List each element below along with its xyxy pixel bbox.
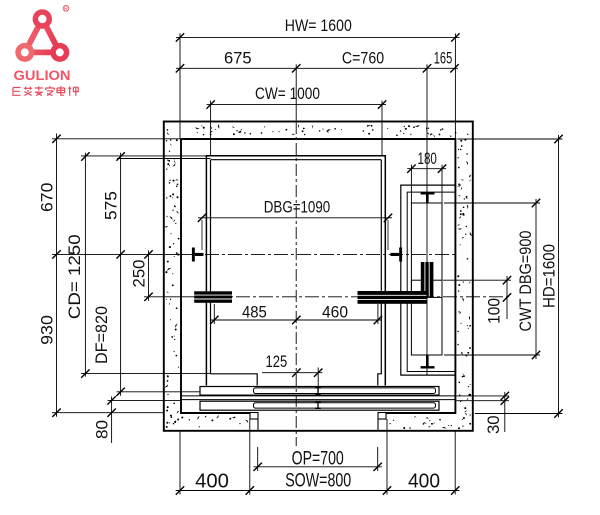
svg-text:CD= 1250: CD= 1250 — [66, 234, 84, 319]
car cab outer wall — [206, 156, 385, 386]
svg-text:R: R — [64, 6, 68, 12]
car rail bracket right (filled) — [358, 291, 427, 304]
car cab inner wall — [211, 160, 382, 386]
sill gap line lower — [181, 399, 455, 401]
registered mark — [63, 5, 69, 11]
svg-text:DF=820: DF=820 — [92, 306, 111, 364]
svg-text:670: 670 — [38, 183, 57, 212]
dimension CWT DBG=900 — [444, 199, 540, 359]
logo chinese tagline — [13, 86, 78, 96]
landing door sill tongue — [254, 403, 436, 408]
svg-text:SOW=800: SOW=800 — [285, 471, 351, 492]
svg-text:575: 575 — [102, 191, 121, 220]
svg-text:C=760: C=760 — [342, 49, 384, 68]
dimension DBG=1090 — [198, 214, 392, 250]
svg-text:80: 80 — [93, 420, 112, 439]
svg-text:180: 180 — [418, 149, 437, 168]
hoistway wall hatch top — [167, 124, 469, 138]
svg-text:HD=1600: HD=1600 — [541, 244, 559, 308]
svg-text:460: 460 — [322, 303, 348, 322]
svg-text:400: 400 — [195, 470, 229, 492]
sill gap line upper — [181, 395, 455, 397]
dimension 100 — [443, 276, 511, 319]
svg-text:30: 30 — [484, 415, 503, 434]
door centre mark on car sill — [315, 388, 321, 394]
svg-text:GULION: GULION — [14, 68, 71, 83]
hoistway wall hatch bottom-right — [389, 416, 471, 429]
svg-text:165: 165 — [434, 49, 453, 68]
logo corner ring top — [33, 9, 52, 28]
svg-text:100: 100 — [485, 298, 504, 324]
svg-text:HW= 1600: HW= 1600 — [285, 16, 352, 35]
dimension OP=700 — [254, 447, 382, 471]
svg-text:930: 930 — [38, 315, 57, 345]
hoistway wall inner edges — [181, 139, 455, 413]
dimension 180 — [407, 165, 446, 204]
car door sill plate — [200, 387, 439, 396]
dimension 30 — [456, 392, 509, 432]
counterweight frame second — [407, 192, 455, 371]
dimension 670 / 930 (left outer) — [52, 134, 181, 417]
door centre mark on landing sill — [315, 402, 321, 408]
dimension 400 / SOW=800 / 400 — [176, 419, 460, 495]
car door sill tongue — [254, 388, 436, 394]
door jamb right — [378, 413, 386, 431]
dimension 675 / C=760 / 165 — [176, 64, 459, 122]
rail axis centreline horizontal — [52, 253, 455, 255]
cwt rail bracket (filled) — [421, 262, 434, 297]
svg-text:485: 485 — [242, 303, 267, 322]
bracket axis centreline horizontal — [144, 296, 510, 298]
svg-text:400: 400 — [408, 470, 440, 492]
logo triangle band — [25, 19, 60, 52]
car guide rail left — [192, 248, 204, 262]
dimension HD=1600 — [457, 135, 562, 418]
dimension HW=1600 — [176, 33, 460, 139]
svg-text:CWT DBG=900: CWT DBG=900 — [517, 231, 535, 332]
dimension 575 / DF=820 — [116, 152, 200, 396]
svg-text:DBG=1090: DBG=1090 — [264, 198, 330, 217]
dimension CW=1000 — [206, 100, 386, 155]
dimension 485 / 460 — [210, 304, 382, 324]
hoistway wall hatch left — [164, 139, 180, 422]
svg-text:CW= 1000: CW= 1000 — [255, 84, 320, 103]
car rail bracket left (filled) — [194, 291, 232, 303]
car guide rail right — [391, 248, 403, 262]
counterweight guide span rect — [411, 203, 442, 355]
counterweight frame outer — [401, 185, 456, 375]
dimension 125 — [262, 369, 322, 377]
svg-text:675: 675 — [224, 49, 252, 68]
landing door sill plate — [200, 401, 439, 410]
dimension CD=1250 — [81, 152, 211, 377]
hoistway wall hatch bottom-left — [166, 415, 249, 428]
cwt guide rail top — [421, 192, 435, 194]
cwt guide rail bottom — [421, 366, 435, 368]
cwt centreline vertical — [426, 122, 428, 375]
svg-text:250: 250 — [130, 260, 149, 288]
logo corner ring bottom-right — [50, 43, 69, 62]
door centreline vertical — [317, 368, 319, 395]
svg-text:OP=700: OP=700 — [292, 447, 344, 469]
hoistway wall hatch right — [457, 139, 473, 427]
logo corner ring bottom-left — [15, 43, 34, 62]
svg-text:125: 125 — [266, 352, 288, 371]
door jamb left — [250, 413, 258, 431]
dimension 80 — [107, 396, 181, 443]
hoistway wall outer rect — [164, 122, 473, 431]
car centreline vertical — [295, 122, 297, 446]
dimension 250 — [144, 250, 152, 301]
counterweight body — [411, 280, 442, 297]
